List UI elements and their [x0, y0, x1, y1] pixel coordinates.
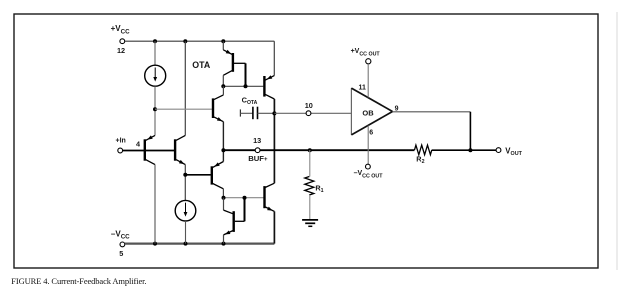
- transistor Q8 base bar: [263, 186, 265, 208]
- resistor R1: [305, 177, 314, 196]
- transistor Q3 collector: [214, 86, 224, 99]
- pin 11 label: [358, 85, 366, 92]
- wire Q2 emitter down: [184, 165, 186, 201]
- transistor Q5 emitter: [223, 50, 232, 55]
- wire pin10 line: [274, 112, 351, 114]
- wire Q5 base tie: [234, 63, 246, 86]
- transistor Q3 emitter: [214, 117, 224, 122]
- svg-text:COTA: COTA: [242, 96, 258, 106]
- capacitor C_OTA plates: [253, 107, 258, 120]
- transistor Q1 base bar: [144, 139, 146, 160]
- current source I1: [145, 65, 166, 86]
- pin 13 terminal: [255, 148, 260, 153]
- page edge line: [616, 12, 618, 270]
- label -Vcc_out: [354, 170, 384, 179]
- svg-text:+VCC: +VCC: [111, 24, 130, 36]
- wire R1 upper lead: [309, 150, 311, 176]
- wire Q4 collector to mirror: [222, 189, 224, 198]
- transistor Q6 emitter: [265, 75, 274, 80]
- transistor Q4 collector: [213, 184, 224, 189]
- +Vcc_out terminal: [366, 59, 371, 64]
- transistor Q2 collector: [176, 135, 185, 140]
- resistor R2: [415, 145, 432, 155]
- wire rail corner to Q6 emitter: [273, 41, 275, 75]
- node bottom rail junctions: [153, 242, 226, 246]
- svg-text:OB: OB: [362, 109, 374, 118]
- svg-text:OTA: OTA: [192, 60, 211, 70]
- wire I1 to Q1 emitter: [154, 86, 156, 135]
- -Vcc_out terminal: [366, 164, 371, 169]
- wire top rail: [125, 40, 274, 42]
- wire Q3 base line: [155, 108, 212, 110]
- svg-text:11: 11: [358, 85, 366, 92]
- label OB: [362, 109, 374, 118]
- +Vcc terminal: [120, 39, 125, 44]
- wire Q5 collector to node: [222, 75, 224, 86]
- transistor Q2 emitter: [176, 160, 185, 165]
- pin 10 terminal: [306, 111, 311, 116]
- transistor Q7 base tie: [235, 198, 245, 222]
- pin 9 label: [395, 105, 399, 112]
- wire +Vcc to I1: [154, 41, 156, 65]
- node mirror bottom A: [222, 196, 226, 200]
- svg-text:VOUT: VOUT: [505, 146, 522, 157]
- pin 10 label: [305, 101, 313, 110]
- node Q4 base tap: [183, 173, 187, 177]
- +In terminal: [118, 148, 123, 153]
- current source I2: [175, 200, 196, 221]
- capacitor C_OTA stub: [239, 109, 241, 116]
- pin 5: [119, 249, 123, 258]
- svg-text:5: 5: [119, 249, 123, 258]
- label OTA: [192, 60, 211, 70]
- node R1 tap: [308, 148, 312, 152]
- svg-text:–VCC OUT: –VCC OUT: [354, 170, 384, 179]
- node Q3 base tap: [153, 107, 157, 111]
- wire R1 lower lead: [309, 195, 311, 219]
- label R1: [315, 184, 323, 195]
- node OTA output: [272, 111, 276, 115]
- wire mirror bus top: [223, 85, 263, 87]
- caption: [11, 276, 146, 286]
- wire OB to -Vcc_out: [367, 126, 369, 165]
- wire I2 to -Vcc rail: [185, 221, 187, 244]
- wire +Vcc_out to OB: [367, 64, 369, 98]
- node mirror top A: [221, 84, 225, 88]
- svg-text:13: 13: [253, 136, 261, 145]
- transistor Q8 collector: [265, 183, 274, 187]
- transistor Q7 collector: [224, 210, 233, 214]
- wire OB output: [393, 111, 471, 113]
- wire rail to Q5 emitter: [222, 41, 224, 50]
- label +In: [116, 138, 126, 145]
- svg-text:10: 10: [305, 101, 313, 110]
- transistor Q6 base bar: [263, 76, 265, 97]
- wire Q8 emitter to rail corner: [273, 211, 275, 243]
- wire BUF bus: [223, 149, 414, 151]
- wire bottom rail: [125, 243, 275, 245]
- ground: [302, 220, 318, 226]
- label BUF+: [248, 154, 268, 163]
- svg-text:–VCC: –VCC: [111, 229, 130, 240]
- svg-text:R1: R1: [315, 184, 323, 195]
- svg-text:R2: R2: [416, 154, 424, 165]
- wire input base line: [123, 150, 174, 152]
- wire feedback down: [469, 112, 471, 150]
- transistor Q7 base bar: [232, 211, 234, 232]
- svg-text:+In: +In: [116, 138, 126, 145]
- transistor Q3 base bar: [212, 98, 214, 118]
- node BUF junction: [221, 148, 225, 152]
- wire BUF node to Q4 emitter: [222, 150, 224, 161]
- svg-text:4: 4: [136, 140, 141, 149]
- label +Vcc: [111, 24, 130, 36]
- label -Vcc: [111, 229, 130, 240]
- wire Q1 collector to -Vcc rail: [154, 165, 156, 244]
- transistor Q5 base bar: [232, 53, 234, 72]
- node mirror bottom B: [243, 196, 247, 200]
- svg-text:BUF+: BUF+: [248, 154, 268, 163]
- node mirror top B: [244, 84, 248, 88]
- wire Q4 base line: [185, 174, 211, 176]
- pin 6 label: [369, 130, 373, 137]
- wire mirror bus bottom: [224, 197, 264, 199]
- label Vout: [505, 146, 522, 157]
- -Vcc terminal: [120, 242, 125, 247]
- label R2: [416, 154, 424, 165]
- transistor Q2 base bar: [174, 139, 176, 160]
- pin 13 label: [253, 136, 261, 145]
- capacitor C_OTA left lead: [240, 112, 253, 114]
- Vout terminal: [496, 148, 501, 153]
- transistor Q6 collector: [265, 94, 274, 99]
- wire Q6 collector down to Q8 collector: [273, 99, 275, 183]
- label +Vcc_out: [351, 48, 381, 58]
- wire R2 to Vout: [432, 149, 496, 151]
- transistor Q7 emitter: [224, 231, 233, 235]
- wire Q7 emitter to rail: [223, 235, 225, 244]
- op-amp OB body: [351, 88, 392, 135]
- transistor Q5 collector: [223, 71, 232, 76]
- label C_OTA: [242, 96, 258, 106]
- transistor Q8 emitter: [265, 207, 274, 212]
- node top rail junctions: [153, 39, 225, 43]
- transistor Q1 collector: [146, 160, 155, 165]
- svg-text:FIGURE 4. Current-Feedback Amp: FIGURE 4. Current-Feedback Amplifier.: [11, 276, 146, 286]
- capacitor C_OTA right lead: [258, 112, 275, 114]
- svg-text:6: 6: [369, 130, 373, 137]
- wire node to Q7 collector: [223, 198, 225, 210]
- transistor Q1 emitter: [146, 135, 155, 140]
- wire +Vcc rail to Q2 collector: [184, 41, 186, 135]
- node output junction: [468, 148, 472, 152]
- transistor Q4 emitter: [213, 162, 224, 168]
- wire Q3 emitter to BUF node: [222, 122, 224, 151]
- pin 12: [117, 46, 125, 55]
- svg-text:12: 12: [117, 46, 125, 55]
- pin 4: [136, 140, 141, 149]
- svg-text:+VCC OUT: +VCC OUT: [351, 48, 381, 58]
- transistor Q4 base bar: [211, 166, 213, 184]
